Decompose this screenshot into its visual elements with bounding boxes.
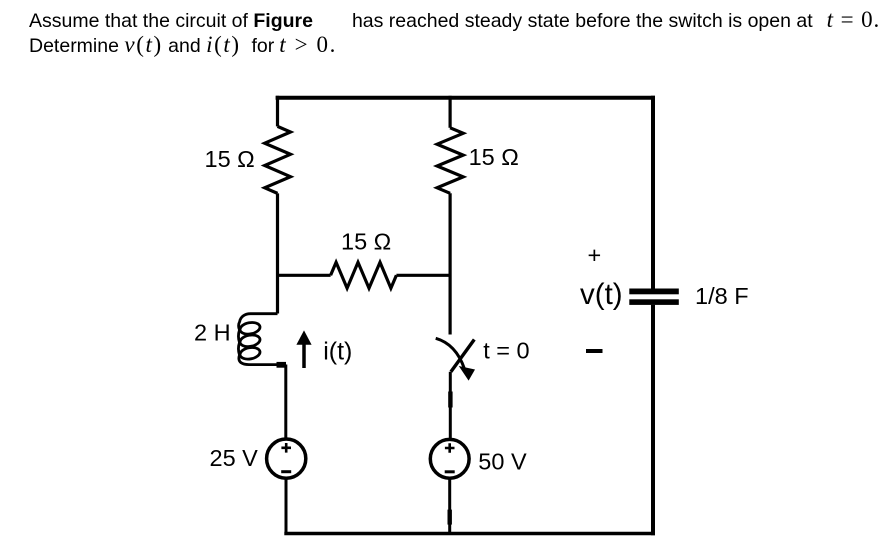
minus sign of 25 V source <box>281 470 291 473</box>
switch SW1 opening arc <box>436 338 465 369</box>
capacitor minus polarity <box>586 349 603 353</box>
resistor R2 15 ohm middle vertical <box>437 128 463 194</box>
label 1/8 F <box>695 283 749 309</box>
svg-text:v(t): v(t) <box>580 278 623 311</box>
capacitor C1 1/8 F <box>629 289 679 305</box>
wire right side lower <box>651 305 655 536</box>
wire left lower below 25V source <box>285 478 288 535</box>
svg-text:15 Ω: 15 Ω <box>205 146 255 172</box>
wire left upper vertical stub <box>276 96 279 127</box>
current arrow i(t) <box>296 330 311 368</box>
nub above 50V source <box>448 392 452 408</box>
svg-text:15 Ω: 15 Ω <box>469 144 519 170</box>
nub below 50V source <box>448 510 452 525</box>
inductor L1 2 H <box>238 314 286 365</box>
wire below switch to 50V source <box>449 372 452 440</box>
svg-text:25 V: 25 V <box>210 445 259 471</box>
voltage source V2 50 V <box>430 439 469 478</box>
wire below 50V source to bottom <box>448 478 451 535</box>
svg-text:+: + <box>588 242 602 268</box>
svg-text:2 H: 2 H <box>194 320 231 346</box>
label v(t) <box>580 278 623 311</box>
label 15 ohm horizontal <box>341 228 391 254</box>
svg-text:1/8 F: 1/8 F <box>695 283 749 309</box>
wire horizontal branch right segment <box>396 274 450 277</box>
label i(t) <box>323 338 352 366</box>
plus sign of 50 V source <box>445 443 455 453</box>
problem statement text <box>29 8 880 58</box>
svg-text:50 V: 50 V <box>478 449 527 475</box>
switch SW1 blade <box>451 340 474 372</box>
svg-text:i(t): i(t) <box>323 338 352 366</box>
wire right side upper <box>651 96 655 289</box>
switch SW1 arrowhead <box>459 366 475 381</box>
label 25 V <box>210 445 259 471</box>
resistor R3 15 ohm horizontal <box>331 262 397 288</box>
wire from 25V source up to inductor <box>284 365 287 440</box>
minus sign of 50 V source <box>445 470 455 473</box>
wire left vertical between R1 and inductor <box>276 193 279 313</box>
wire top horizontal <box>276 96 655 100</box>
svg-text:t = 0: t = 0 <box>483 338 529 364</box>
wire horizontal branch left segment <box>278 274 331 277</box>
junction nub at inductor bottom <box>277 362 287 368</box>
label 15 ohm middle <box>469 144 519 170</box>
label 50 V <box>478 449 527 475</box>
wire middle vertical between R2 and switch <box>449 193 452 334</box>
resistor R1 15 ohm left vertical <box>265 126 291 193</box>
label 2 H <box>194 320 231 346</box>
wire bottom horizontal <box>284 532 655 536</box>
voltage source V1 25 V <box>267 439 306 478</box>
label 15 ohm left <box>205 146 255 172</box>
label t = 0 <box>483 338 529 364</box>
plus sign of 25 V source <box>281 443 291 453</box>
wire middle vertical top stub <box>449 96 452 128</box>
svg-text:15 Ω: 15 Ω <box>341 228 391 254</box>
capacitor plus polarity <box>588 242 602 268</box>
